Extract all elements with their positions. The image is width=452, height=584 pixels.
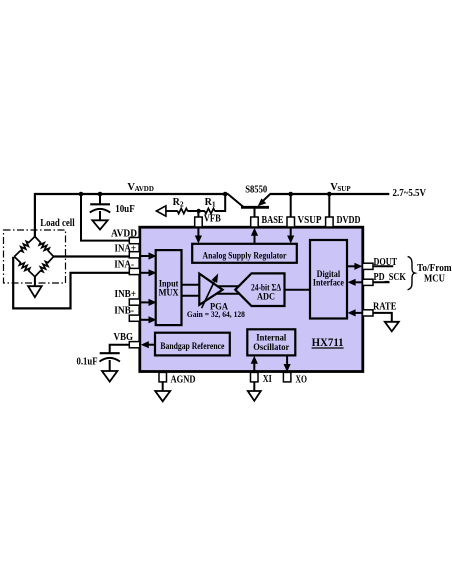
wire VBG to 0.1uF [110, 345, 130, 354]
pin XO [283, 372, 291, 382]
transistor Q1 emitter lead with arrow [261, 194, 270, 202]
svg-text:VSUP: VSUP [298, 215, 322, 226]
node junction rail/10uF [98, 192, 103, 197]
wire Q1 base to BASE pin [254, 207, 256, 217]
node junction rail/AVDD [79, 192, 84, 197]
ground below load cell [28, 286, 42, 297]
wire MUX to PGA upper [182, 284, 201, 286]
block Digital Interface [310, 240, 347, 319]
wire PGA to ADC upper [216, 285, 240, 287]
resistor R2 [166, 210, 178, 212]
wire INA- loop [13, 257, 129, 309]
PGA gain arrow [202, 282, 215, 309]
svg-text:INA-: INA- [114, 259, 134, 270]
svg-text:2.7~5.5V: 2.7~5.5V [393, 188, 427, 199]
pin BASE [251, 217, 259, 227]
bridge resistor top-right [35, 237, 54, 257]
wire VFB drop [197, 211, 199, 218]
pin AVDD [129, 238, 140, 244]
resistor R1 [205, 208, 215, 213]
block Bandgap Reference [155, 333, 230, 356]
svg-text:XI: XI [263, 374, 272, 385]
svg-text:BASE: BASE [262, 215, 284, 226]
open arrow to AVDD (left of R2) [156, 206, 166, 216]
ground at XI [248, 391, 261, 401]
arrow regulator up to BASE pin [254, 234, 256, 244]
wire VSUP rail right segment [270, 193, 390, 195]
pin PD_SCK [363, 279, 374, 285]
pin VFB [195, 217, 203, 227]
wire 10uF to ground [99, 211, 101, 221]
wire AVDD branch horizontal [80, 240, 130, 242]
ground below 0.1uF [102, 371, 117, 382]
wire VSUP pin drop [290, 194, 292, 218]
arrow INB- into MUX [140, 319, 150, 321]
svg-text:Load cell: Load cell [40, 218, 75, 229]
svg-text:1: 1 [212, 199, 216, 208]
svg-text:SUP: SUP [337, 185, 351, 193]
arrow INA- into MUX [140, 272, 150, 274]
capacitor C2 0.1uF top plate [100, 352, 120, 354]
svg-text:10uF: 10uF [115, 204, 135, 215]
pin INA+ [129, 252, 140, 258]
arrow XI pin up into oscillator [253, 362, 255, 373]
ground at RATE [385, 322, 399, 332]
wire DOUT external [373, 265, 393, 267]
svg-text:HX711: HX711 [312, 337, 344, 349]
pin AGND [159, 372, 167, 382]
wire VAVDD rail left segment [35, 193, 229, 195]
wire load-cell top drop [34, 193, 36, 238]
wire 0.1uF to ground [109, 360, 111, 371]
ground below 10uF [92, 220, 107, 229]
arrow VFB pin down into regulator [197, 227, 199, 237]
svg-text:DVDD: DVDD [337, 215, 361, 226]
wire XI to ground [253, 382, 255, 391]
wire 10uF cap drop [99, 194, 101, 205]
block Input MUX [156, 250, 182, 325]
svg-text:PD_SCK: PD_SCK [374, 272, 406, 283]
pin INA- [129, 268, 140, 274]
transistor Q1 base bar [241, 206, 269, 209]
wire RATE to ground [373, 313, 392, 322]
net label VSUP [330, 182, 351, 193]
svg-text:AVDD: AVDD [111, 228, 137, 239]
svg-text:INB-: INB- [114, 306, 134, 317]
arrow RATE pin into interface [354, 312, 363, 314]
svg-text:Bandgap Reference: Bandgap Reference [160, 341, 224, 351]
svg-text:ADC: ADC [257, 292, 275, 302]
label R2 [173, 197, 184, 209]
pin INB- [129, 315, 140, 321]
capacitor C1 10uF top plate [90, 203, 110, 205]
arrow oscillator down to XO pin [286, 355, 288, 365]
svg-text:VBG: VBG [114, 332, 134, 343]
wire R1 right to rail [215, 194, 226, 211]
arrow INB+ into MUX [140, 301, 150, 303]
brace to MCU [408, 256, 415, 289]
svg-text:0.1uF: 0.1uF [77, 357, 98, 368]
svg-text:MCU: MCU [424, 274, 445, 285]
pin RATE [363, 310, 374, 316]
wire bridge bottom to ground [34, 277, 36, 287]
wire PGA to ADC lower [216, 293, 240, 295]
wire AGND to ground [162, 382, 164, 391]
pin DOUT [363, 263, 374, 269]
svg-text:2: 2 [180, 200, 184, 209]
node junction rail/DVDD [327, 192, 332, 197]
svg-text:INB+: INB+ [115, 289, 137, 300]
wire AVDD branch vertical [80, 194, 82, 241]
arrow INA+ into MUX [140, 255, 150, 257]
block Analog Supply Regulator [192, 244, 297, 263]
pin DVDD [326, 217, 334, 227]
bridge resistor bottom-left [14, 257, 35, 277]
node junction R2/R1/VFB [196, 209, 200, 213]
ADC hexagon 24-bit sigma-delta [235, 273, 284, 306]
svg-text:AGND: AGND [171, 375, 196, 386]
arrow PD_SCK pin into interface [354, 281, 363, 283]
capacitor C2 0.1uF curved plate [100, 358, 120, 362]
svg-text:Gain = 32, 64, 128: Gain = 32, 64, 128 [187, 309, 245, 319]
bridge resistor top-left [14, 237, 35, 257]
svg-text:Internal: Internal [256, 332, 286, 342]
svg-text:Oscillator: Oscillator [253, 342, 289, 352]
wire PD_SCK external [373, 281, 390, 283]
wire R2-R1 junction segment [187, 210, 204, 212]
pin VBG [129, 342, 140, 348]
capacitor C1 10uF curved plate [90, 209, 110, 213]
pin INB+ [129, 299, 140, 305]
label R1 [205, 197, 216, 209]
label HX711 [312, 337, 344, 349]
pin VSUP [287, 217, 295, 227]
net label VAVDD [127, 182, 154, 193]
block Internal Oscillator [247, 329, 295, 355]
HX711 chip body [140, 227, 363, 371]
svg-text:RATE: RATE [373, 302, 397, 313]
wire ADC to Digital Interface [285, 289, 311, 291]
transistor Q1 collector lead [228, 194, 243, 206]
arrow Bandgap to VBG pin [148, 344, 155, 346]
arrow interface to DOUT pin [347, 265, 356, 267]
wire MUX to PGA lower [182, 295, 201, 297]
load cell dash-dot box [4, 230, 66, 283]
svg-text:MUX: MUX [159, 287, 179, 297]
svg-text:Analog Supply Regulator: Analog Supply Regulator [203, 250, 287, 260]
node junction rail/VSUP [288, 192, 293, 197]
ground at AGND [155, 391, 170, 401]
svg-text:INA+: INA+ [115, 243, 137, 254]
svg-text:Interface: Interface [313, 278, 344, 288]
bridge resistor bottom-right [35, 257, 54, 277]
pin XI [251, 372, 259, 382]
wire DVDD pin drop [328, 194, 330, 218]
svg-text:VFB: VFB [204, 214, 221, 225]
svg-text:S8550: S8550 [245, 184, 267, 195]
node junction rail/R1 [223, 192, 228, 197]
svg-text:XO: XO [296, 374, 308, 385]
svg-text:AVDD: AVDD [135, 185, 154, 193]
wire bridge right vertex to INA+ pin [54, 255, 130, 257]
op-amp PGA triangle [199, 274, 222, 305]
arrow VSUP pin down into regulator [290, 227, 292, 237]
